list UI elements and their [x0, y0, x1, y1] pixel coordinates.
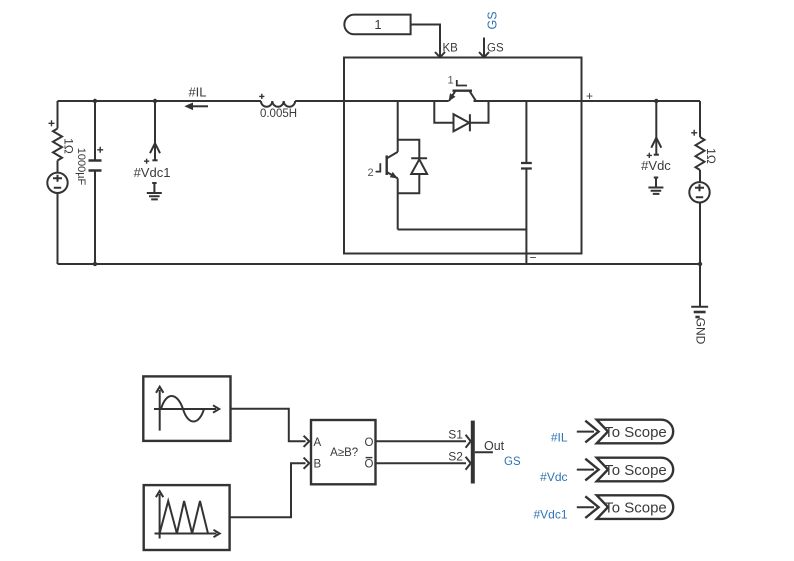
svg-text:#IL: #IL: [551, 431, 568, 445]
resistor R2 1ohm: [696, 137, 705, 170]
constant block 1: [344, 15, 410, 35]
label R1 plus: [49, 120, 55, 126]
wire box bottom internal: [398, 229, 527, 231]
goto scope 1 arrow: [585, 421, 598, 443]
output port bar: [471, 421, 475, 484]
wire out stub: [475, 451, 493, 453]
label GS blue rotated: [485, 11, 499, 29]
label Vdc1 plus: [144, 159, 149, 164]
junction capacitor bottom: [93, 262, 97, 266]
subsystem box: [344, 58, 582, 254]
label C1 value: [75, 148, 87, 186]
svg-text:1: 1: [447, 75, 453, 87]
ground GND: [691, 306, 708, 308]
transistor Q1 gate lead: [457, 80, 467, 86]
wire sine to A: [231, 409, 306, 442]
label box minus: [530, 251, 537, 265]
label Out: [484, 439, 505, 453]
svg-text:O: O: [365, 437, 374, 449]
svg-text:GS: GS: [504, 456, 521, 468]
svg-text:+: +: [586, 89, 593, 103]
svg-text:To Scope: To Scope: [604, 500, 667, 517]
probe Vdc1 arrow: [150, 143, 160, 153]
transistor Q1 bar: [453, 89, 473, 91]
label Q2 number: [367, 167, 373, 179]
label scope 2 text: [604, 462, 667, 479]
svg-text:1Ω: 1Ω: [704, 148, 718, 164]
svg-text:#Vdc: #Vdc: [641, 158, 671, 173]
junction C1 top: [93, 99, 97, 103]
capacitor C1 branch wire: [94, 101, 96, 264]
arrow current IL: [192, 105, 208, 107]
diode D2: [411, 157, 427, 159]
goto scope 3 arrow: [585, 496, 598, 518]
svg-text:#Vdc1: #Vdc1: [533, 508, 567, 522]
svg-text:#Vdc1: #Vdc1: [134, 165, 171, 180]
label comparator fn: [330, 447, 358, 459]
svg-text:GND: GND: [694, 318, 708, 345]
label GS blue out: [504, 456, 521, 468]
svg-text:0.005H: 0.005H: [260, 108, 297, 120]
svg-text:A≥B?: A≥B?: [330, 447, 358, 459]
wire diode D1 loop: [434, 101, 488, 123]
junction bottom right: [698, 262, 702, 266]
label scope 3 text: [604, 500, 667, 517]
label output Obar: [365, 459, 374, 471]
label Vdc name: [641, 158, 671, 173]
label scope 1 signal: [551, 431, 568, 445]
label Vdc plus: [647, 153, 652, 158]
svg-text:1: 1: [374, 17, 381, 32]
svg-text:KB: KB: [443, 43, 459, 55]
label R1 value: [62, 138, 76, 154]
label #IL: [188, 85, 206, 100]
label C1 plus: [97, 147, 103, 153]
ground for Vdc: [648, 178, 663, 194]
probe Vdc tick: [654, 154, 659, 156]
label GND: [694, 318, 708, 345]
svg-text:2: 2: [367, 167, 373, 179]
goto scope 3 body: [597, 495, 674, 519]
wire Obar to S2: [376, 462, 467, 464]
label output O: [365, 437, 374, 449]
label Q1 number: [447, 75, 453, 87]
voltmeter probe Vdc1 wire: [154, 101, 156, 160]
arrow into B: [304, 458, 310, 469]
junction Vdc1: [153, 99, 157, 103]
wire D2 bottom: [398, 174, 420, 193]
wire D2 top branch: [398, 140, 420, 159]
sine icon wave: [161, 396, 204, 422]
arrow S1: [466, 435, 471, 448]
arrow S2: [466, 457, 471, 470]
wire O to S1: [376, 440, 467, 442]
block comparator: [311, 420, 376, 484]
svg-text:To Scope: To Scope: [604, 424, 667, 441]
label input B: [314, 459, 322, 471]
voltmeter probe Vdc wire: [655, 101, 657, 155]
junction Vdc: [654, 99, 658, 103]
resistor R1 1ohm: [53, 129, 62, 161]
label R2 plus: [691, 130, 697, 136]
transistor Q1 emitter: [449, 91, 456, 101]
svg-text:S1: S1: [448, 428, 463, 442]
svg-text:−: −: [530, 251, 537, 265]
svg-text:1000µF: 1000µF: [75, 148, 87, 186]
label scope 1 text: [604, 424, 667, 441]
sine icon axes: [154, 387, 219, 431]
wire GS input: [483, 38, 485, 58]
svg-text:1Ω: 1Ω: [62, 138, 76, 154]
svg-text:S2: S2: [448, 450, 463, 464]
block sine generator: [143, 376, 230, 441]
label L1 value: [260, 108, 297, 120]
goto scope 2 body: [597, 458, 673, 482]
svg-text:A: A: [314, 437, 322, 449]
voltage source V2: [689, 182, 709, 202]
probe Vdc arrow: [651, 138, 661, 148]
svg-text:#IL: #IL: [188, 85, 206, 100]
block triangle generator: [144, 485, 230, 550]
arrow GS: [479, 52, 489, 57]
triangle icon axes: [155, 491, 220, 538]
label L1 plus: [259, 94, 264, 99]
transistor Q1 collector: [469, 91, 476, 101]
transistor Q2 gate lead: [376, 163, 381, 171]
label input A: [314, 437, 322, 449]
ground for Vdc1: [147, 183, 162, 199]
arrow KB: [435, 52, 445, 57]
wire constant to KB: [411, 25, 440, 58]
arrow into A: [304, 436, 310, 447]
label box plus: [586, 89, 593, 103]
label scope 2 signal: [540, 470, 567, 484]
svg-text:#Vdc: #Vdc: [540, 470, 567, 484]
svg-text:Out: Out: [484, 439, 505, 453]
label S1: [448, 428, 463, 442]
label R2 value: [704, 148, 718, 164]
capacitor C2 plates: [521, 163, 532, 169]
svg-text:GS: GS: [485, 11, 499, 29]
wire Q2 branch vertical: [397, 101, 399, 230]
goto scope 2 arrow: [585, 459, 598, 481]
wire bottom rail: [58, 263, 701, 265]
capacitor C2 wire: [525, 101, 527, 264]
transistor Q2 collector: [387, 152, 398, 159]
wire main top rail: [58, 100, 701, 102]
goto scope 1 lead: [577, 431, 594, 433]
svg-text:B: B: [314, 459, 322, 471]
svg-text:To Scope: To Scope: [604, 462, 667, 479]
transistor Q2 emitter: [387, 172, 398, 178]
label scope 3 signal: [533, 508, 567, 522]
svg-text:GS: GS: [487, 43, 504, 55]
transistor Q2 bar: [386, 155, 388, 175]
capacitor C1 plates: [89, 161, 102, 171]
goto scope 1 body: [597, 420, 673, 444]
wire triangle to B: [230, 463, 306, 517]
goto scope 2 lead: [577, 469, 594, 471]
label KB: [443, 43, 459, 55]
triangle icon wave: [160, 501, 208, 534]
diode D1: [454, 114, 470, 131]
voltage source V1: [47, 173, 67, 193]
wire right branch: [699, 101, 701, 307]
wire left vertical: [57, 101, 59, 264]
goto scope 3 lead: [577, 506, 594, 508]
label GS black: [487, 43, 504, 55]
svg-text:O: O: [365, 459, 374, 471]
inductor L1: [261, 101, 295, 107]
label S2: [448, 450, 463, 464]
label Vdc1 name: [134, 165, 171, 180]
probe Vdc1 tick: [152, 159, 157, 161]
